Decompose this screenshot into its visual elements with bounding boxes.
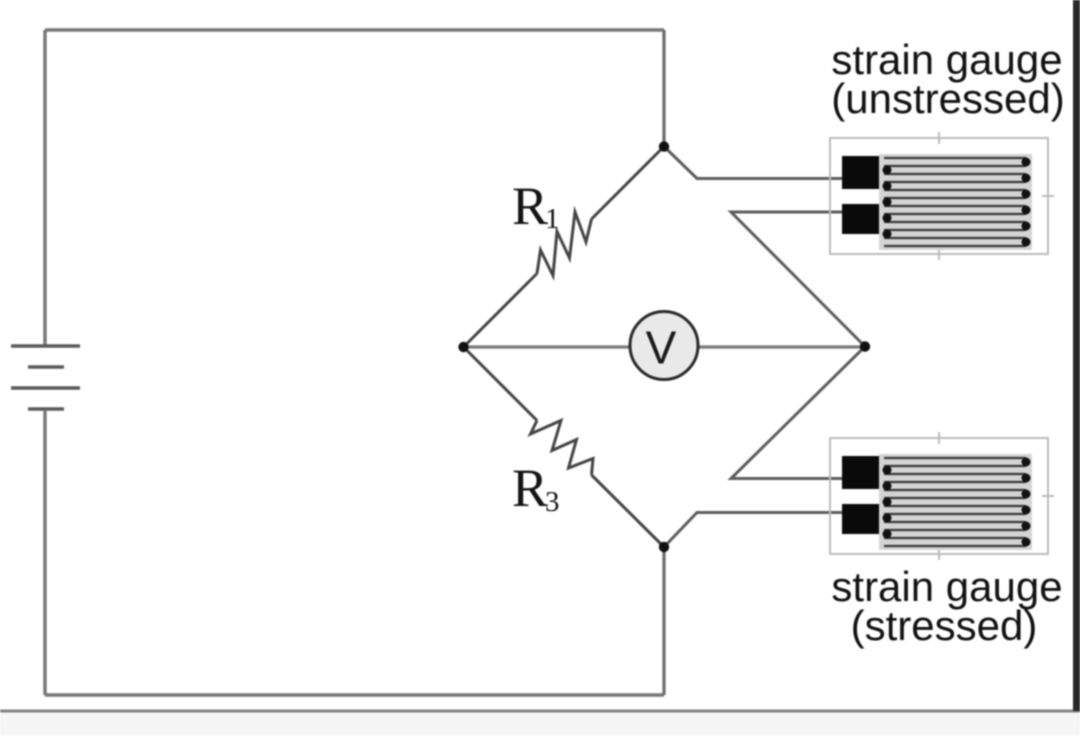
wire top-right arm to gauge pad 1 [664, 147, 861, 179]
node bottom junction [659, 542, 669, 552]
strain gauge SG1 (unstressed) [830, 132, 1054, 260]
svg-text:R: R [512, 176, 548, 236]
resistor R3 [531, 421, 594, 476]
page bottom separator [0, 710, 1080, 713]
page right border bar [1073, 0, 1080, 711]
wire right riser to bottom node [662, 547, 665, 695]
label strain gauge (stressed) [831, 563, 1062, 649]
node left junction [458, 342, 468, 352]
wire [592, 475, 665, 547]
battery B1 [11, 346, 80, 409]
svg-text:R: R [512, 458, 548, 518]
wire right node to bottom gauge pad 1 [731, 347, 865, 479]
resistor R1 [537, 212, 592, 276]
node top junction [659, 141, 669, 151]
label R1 [512, 176, 560, 236]
strain gauge SG2 (stressed) [830, 432, 1054, 560]
label R3 [512, 458, 560, 518]
svg-text:(stressed): (stressed) [851, 602, 1038, 649]
wire top drop to top node [662, 30, 665, 146]
wire bottom node to bottom gauge pad 2 [664, 513, 861, 548]
svg-text:1: 1 [545, 203, 560, 235]
wire right node to top gauge pad 2 [731, 212, 865, 347]
svg-text:V: V [646, 322, 677, 374]
node right junction [860, 341, 870, 351]
wire bottom rail [45, 693, 664, 696]
svg-text:(unstressed): (unstressed) [831, 75, 1064, 122]
wire bridge arm top-left with resistor R1 [592, 147, 665, 220]
wire left side upper [43, 30, 46, 345]
svg-text:3: 3 [545, 486, 560, 518]
label strain gauge (unstressed) [831, 36, 1064, 122]
wire bridge arm bottom-left with resistor R3 [464, 347, 538, 421]
wire [464, 274, 538, 348]
wire top rail [45, 28, 664, 31]
voltmeter V [630, 312, 698, 380]
wire meter bridge horizontal [464, 345, 866, 348]
wire left side lower [43, 410, 46, 695]
